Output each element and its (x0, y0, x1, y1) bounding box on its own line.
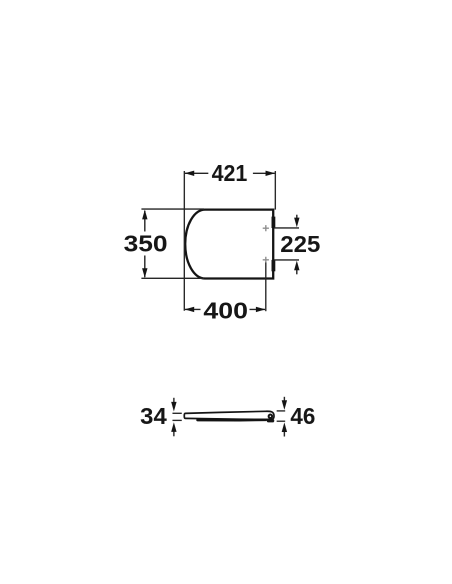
seat profile outline (side view) (184, 411, 274, 419)
extension line left shared by 421 and 400 (183, 171, 185, 311)
extension line bottom for 225 (274, 259, 299, 261)
dimension 225 down arrow with shaft (296, 215, 298, 219)
extension line top for 225 (274, 227, 299, 229)
hinge pin (side view) (269, 415, 273, 419)
hinge cross marker top (263, 225, 269, 231)
dimension 34 down arrow (173, 398, 175, 404)
dimension 46 tick bottom (277, 420, 286, 422)
dimension 46 tick top (277, 410, 286, 412)
extension line right for 400 (265, 263, 267, 312)
dimension 46 up arrow (283, 432, 285, 437)
svg-text:46: 46 (290, 403, 315, 429)
extension line top for 350 (141, 208, 204, 210)
hinge tab top (272, 217, 276, 228)
dimension 46 down arrow (283, 397, 285, 402)
extension line bottom for 350 (141, 277, 204, 279)
profile hinge bump (267, 419, 275, 422)
dimension 34 up arrow (173, 430, 175, 436)
dimension 421 line (185, 172, 275, 174)
dimension 350 down arrow (142, 268, 147, 278)
dimension 400 line (185, 308, 265, 310)
dimension 34 tick top (172, 412, 181, 414)
svg-text:350: 350 (124, 231, 168, 257)
dimension 421 right arrow (266, 171, 276, 176)
hinge cross marker bottom (263, 257, 269, 263)
extension line right for 421 (274, 171, 276, 210)
dimension 350 line (144, 211, 146, 277)
profile bottom thick edge (197, 419, 266, 422)
dimension 34 tick bottom (172, 419, 181, 421)
dimension 400 left arrow (185, 307, 195, 312)
svg-text:421: 421 (212, 160, 248, 186)
seat outline (top view) (185, 210, 273, 279)
hinge tab bottom (272, 260, 276, 271)
svg-text:34: 34 (140, 403, 167, 429)
svg-text:400: 400 (203, 298, 248, 324)
dimension 400 right arrow (256, 307, 266, 312)
dimension 350 up arrow (142, 210, 147, 220)
dimension 421 left arrow (185, 171, 195, 176)
svg-text:225: 225 (280, 231, 320, 257)
dimension 225 up arrow with shaft (296, 269, 298, 274)
